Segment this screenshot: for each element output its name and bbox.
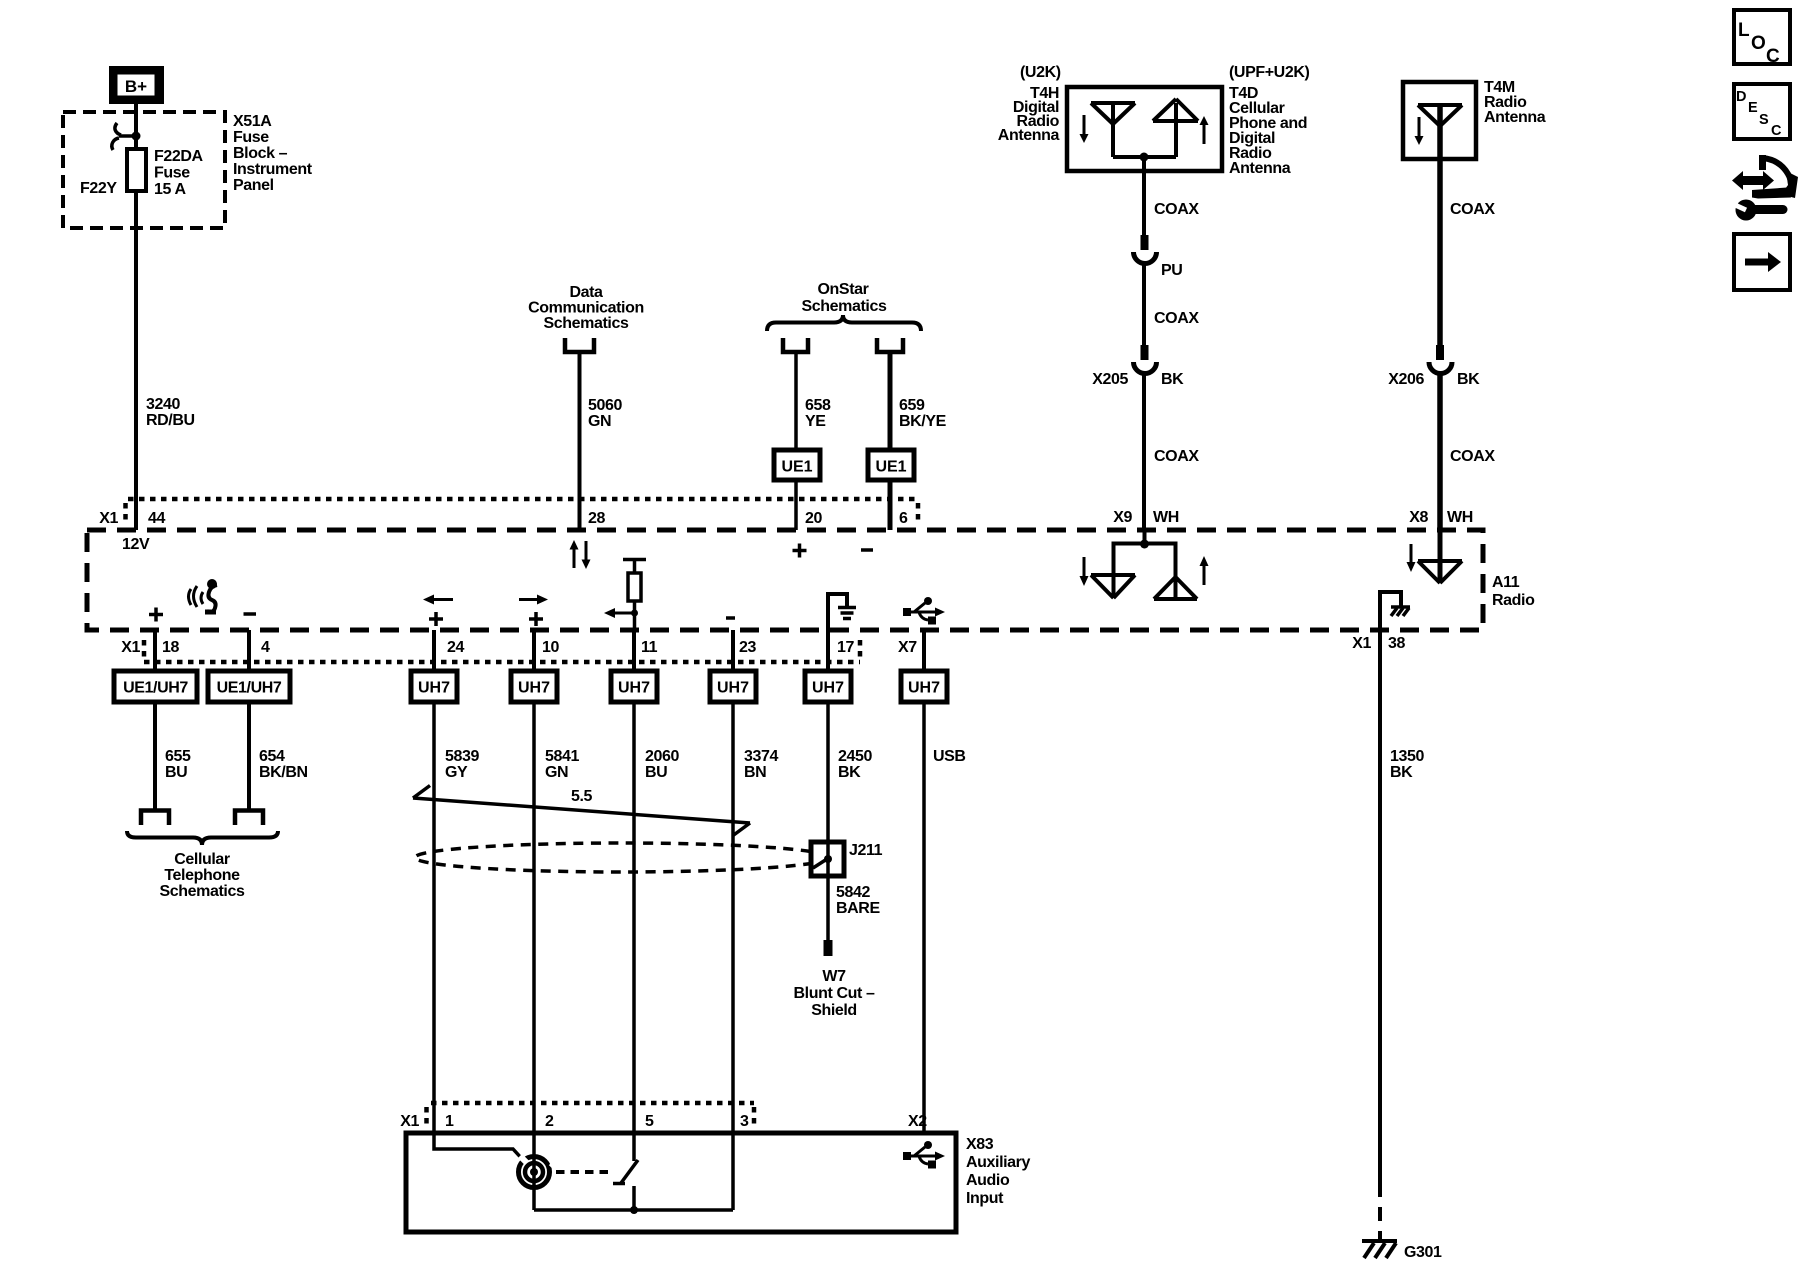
minus sign pin 4 xyxy=(244,612,257,616)
svg-text:Blunt Cut –: Blunt Cut – xyxy=(794,985,875,1002)
label T4M Radio Antenna xyxy=(1484,79,1546,126)
wire dashed to G301 xyxy=(1378,1183,1382,1240)
svg-text:23: 23 xyxy=(739,639,756,656)
radio antenna T4M symbol xyxy=(1418,105,1462,159)
cellular antenna T4D symbol xyxy=(1144,99,1198,157)
svg-text:BK: BK xyxy=(1390,764,1413,781)
transmit antenna in radio (X9) xyxy=(1154,544,1197,600)
svg-text:BARE: BARE xyxy=(836,900,880,917)
svg-text:W7: W7 xyxy=(822,968,846,985)
svg-text:Schematics: Schematics xyxy=(544,315,629,332)
svg-text:COAX: COAX xyxy=(1154,310,1199,327)
svg-text:Block –: Block – xyxy=(233,145,288,162)
connector UH7 (pin 24) xyxy=(411,671,457,702)
USB icon pin X7 xyxy=(903,597,945,625)
svg-text:20: 20 xyxy=(805,510,822,527)
plus sign pin 18 xyxy=(149,608,163,622)
off-page connector data communication xyxy=(565,338,594,352)
wire 658 YE xyxy=(794,354,798,450)
svg-text:X2: X2 xyxy=(908,1113,927,1130)
svg-text:Instrument: Instrument xyxy=(233,161,313,178)
svg-text:X1: X1 xyxy=(400,1113,419,1130)
icon DESC box xyxy=(1734,84,1790,139)
left arrow pin 11 xyxy=(604,608,633,618)
splice J211 xyxy=(811,842,844,876)
svg-text:3240: 3240 xyxy=(146,396,180,413)
wire pin 4 stub xyxy=(247,630,251,671)
svg-text:UE1/UH7: UE1/UH7 xyxy=(123,680,188,697)
label 5841 GN xyxy=(545,748,579,781)
wire 654 BK/BN xyxy=(247,702,251,810)
connector UE1 (658) xyxy=(774,450,820,480)
svg-text:UH7: UH7 xyxy=(518,680,550,697)
svg-text:18: 18 xyxy=(162,639,179,656)
svg-text:PU: PU xyxy=(1161,262,1182,279)
dashed link jack to switch xyxy=(556,1170,614,1174)
svg-text:Input: Input xyxy=(966,1190,1004,1207)
svg-text:BK: BK xyxy=(838,764,861,781)
connector UH7 (pin 23) xyxy=(710,671,756,702)
svg-text:Auxiliary: Auxiliary xyxy=(966,1154,1030,1171)
shield dashed ellipse xyxy=(415,843,829,872)
svg-text:44: 44 xyxy=(148,510,165,527)
off-page connector OnStar 659 xyxy=(877,338,903,352)
svg-text:38: 38 xyxy=(1388,635,1405,652)
svg-text:5841: 5841 xyxy=(545,748,579,765)
svg-text:A11: A11 xyxy=(1492,574,1520,591)
label 655 BU xyxy=(165,748,191,781)
wire pin 1 to jack xyxy=(434,1133,524,1161)
down arrow (X9 receive) xyxy=(1080,557,1089,586)
svg-text:BK: BK xyxy=(1457,371,1480,388)
svg-text:2060: 2060 xyxy=(645,748,679,765)
blunt cut W7 xyxy=(824,940,833,956)
label 658 YE xyxy=(805,397,831,430)
wire pin X7 stub xyxy=(922,630,926,671)
svg-text:X51A: X51A xyxy=(233,113,272,130)
svg-text:(UPF+U2K): (UPF+U2K) xyxy=(1229,64,1309,81)
svg-text:Panel: Panel xyxy=(233,177,274,194)
wire 659 BK/YE to pin 6 xyxy=(888,480,893,530)
svg-text:Communication: Communication xyxy=(528,300,644,317)
svg-text:5839: 5839 xyxy=(445,748,479,765)
svg-text:UH7: UH7 xyxy=(908,680,940,697)
svg-text:X8: X8 xyxy=(1409,509,1428,526)
svg-text:UH7: UH7 xyxy=(812,680,844,697)
svg-text:5842: 5842 xyxy=(836,884,870,901)
label 5842 BARE xyxy=(836,884,880,917)
svg-text:F22Y: F22Y xyxy=(80,180,117,197)
up arrow T4D xyxy=(1200,116,1209,144)
svg-text:3: 3 xyxy=(740,1113,749,1130)
svg-text:X205: X205 xyxy=(1092,371,1128,388)
wire rail in X83 xyxy=(534,1208,733,1212)
icon connector tool xyxy=(1732,155,1798,221)
svg-text:5060: 5060 xyxy=(588,397,622,414)
wire 3374 BN xyxy=(731,702,735,1133)
svg-text:E: E xyxy=(1748,100,1758,116)
down arrow T4H xyxy=(1080,115,1089,143)
svg-text:(U2K): (U2K) xyxy=(1020,64,1061,81)
svg-text:UE1/UH7: UE1/UH7 xyxy=(217,680,282,697)
svg-text:RD/BU: RD/BU xyxy=(146,412,195,429)
svg-text:COAX: COAX xyxy=(1154,448,1199,465)
svg-text:Data: Data xyxy=(569,284,603,301)
svg-text:Telephone: Telephone xyxy=(164,867,240,884)
left arrow pin 24 xyxy=(423,595,453,605)
svg-text:Radio: Radio xyxy=(1492,592,1535,609)
svg-text:15 A: 15 A xyxy=(154,181,186,198)
svg-text:GY: GY xyxy=(445,764,468,781)
right arrow pin 10 xyxy=(519,595,548,605)
svg-text:UE1: UE1 xyxy=(781,459,812,476)
svg-text:Schematics: Schematics xyxy=(160,883,245,900)
svg-text:UH7: UH7 xyxy=(717,680,749,697)
label A11 Radio xyxy=(1492,574,1535,609)
wire 655 BU xyxy=(153,702,157,810)
plus sign pin 24 xyxy=(429,612,443,626)
svg-text:BU: BU xyxy=(165,764,187,781)
svg-text:Shield: Shield xyxy=(811,1002,857,1019)
svg-text:Schematics: Schematics xyxy=(802,298,887,315)
label T4H Digital Radio Antenna xyxy=(998,85,1060,144)
svg-text:GN: GN xyxy=(588,413,611,430)
label OnStar Schematics xyxy=(802,281,887,315)
svg-text:2: 2 xyxy=(545,1113,554,1130)
svg-text:1: 1 xyxy=(445,1113,454,1130)
svg-text:654: 654 xyxy=(259,748,285,765)
off-page connector OnStar 658 xyxy=(783,338,808,352)
connector X1 top row dotted line xyxy=(126,499,919,525)
wire USB X7 to X2 xyxy=(922,702,926,1133)
svg-text:S: S xyxy=(1759,112,1769,128)
svg-text:Fuse: Fuse xyxy=(154,165,190,182)
inline connector X205 xyxy=(1134,345,1157,374)
svg-text:Cellular: Cellular xyxy=(174,851,230,868)
wire coax X206 to radio X8 xyxy=(1437,374,1443,531)
wire 3240 RD/BU label xyxy=(146,396,195,429)
ground G301 xyxy=(1362,1241,1397,1258)
wire pin 18 stub xyxy=(153,630,157,671)
svg-text:OnStar: OnStar xyxy=(818,281,869,298)
bus tap junction xyxy=(112,123,141,150)
down arrow (X8 receive) xyxy=(1407,544,1416,572)
resistor antenna pin 11 xyxy=(623,560,646,631)
fuse block X51A dashed box xyxy=(63,112,225,228)
connector UE1 (659) xyxy=(868,450,914,480)
minus sign pin 23 xyxy=(726,616,735,620)
connector X1 bottom row dotted line xyxy=(144,640,860,662)
wire 5839 GY xyxy=(432,702,436,1133)
svg-text:X9: X9 xyxy=(1113,509,1132,526)
label Cellular Telephone Schematics xyxy=(160,851,245,900)
svg-text:BK: BK xyxy=(1161,371,1184,388)
connector UH7 (pin X7) xyxy=(901,671,947,702)
label 1350 BK xyxy=(1390,748,1424,781)
svg-text:X83: X83 xyxy=(966,1136,994,1153)
svg-text:O: O xyxy=(1751,33,1766,54)
wire pin 3 to rail xyxy=(731,1133,735,1210)
label 2060 BU xyxy=(645,748,679,781)
svg-text:Audio: Audio xyxy=(966,1172,1010,1189)
svg-text:UH7: UH7 xyxy=(618,680,650,697)
svg-text:655: 655 xyxy=(165,748,191,765)
off-page connector cellular (654) xyxy=(235,811,263,826)
brace OnStar xyxy=(767,315,921,331)
down arrow T4M xyxy=(1415,117,1424,145)
inline connector X206 xyxy=(1429,345,1452,374)
receive antenna in radio (X9) xyxy=(1091,544,1135,599)
A11 radio dashed box xyxy=(87,530,1483,630)
svg-text:5: 5 xyxy=(645,1113,654,1130)
node antenna junction xyxy=(1140,153,1149,162)
svg-text:C: C xyxy=(1766,46,1780,67)
wire pin 2 through jack to rail xyxy=(532,1133,536,1210)
wire 5060 GN xyxy=(578,354,582,530)
svg-text:Antenna: Antenna xyxy=(1229,160,1291,177)
svg-text:COAX: COAX xyxy=(1154,201,1199,218)
plus sign pin 10 xyxy=(529,612,543,626)
up/down arrows pin 28 xyxy=(570,540,591,569)
svg-text:D: D xyxy=(1736,89,1746,105)
svg-text:YE: YE xyxy=(805,413,826,430)
svg-text:B+: B+ xyxy=(125,77,147,96)
node X9 junction in radio xyxy=(1112,530,1178,549)
connector UH7 (pin 10) xyxy=(511,671,557,702)
svg-text:4: 4 xyxy=(261,639,270,656)
connector UH7 (pin 17) xyxy=(805,671,851,702)
label 654 BK/BN xyxy=(259,748,308,781)
wire pin 17 stub xyxy=(826,630,830,671)
label X51A Fuse Block Instrument Panel xyxy=(233,113,313,194)
svg-text:11: 11 xyxy=(641,639,658,656)
wire coax T4M down xyxy=(1437,159,1443,346)
audio jack xyxy=(519,1156,556,1188)
wire 5841 GN xyxy=(532,702,536,1133)
receive antenna in radio (X8) xyxy=(1418,530,1462,583)
svg-text:X1: X1 xyxy=(1352,635,1371,652)
label W7 Blunt Cut Shield xyxy=(794,968,875,1019)
plus sign pin 20 xyxy=(793,544,807,558)
svg-text:658: 658 xyxy=(805,397,831,414)
connector X83 X1 dotted line xyxy=(427,1103,755,1129)
ground symbol pin 17 xyxy=(828,594,856,630)
microphone icon in radio xyxy=(189,579,218,612)
svg-text:WH: WH xyxy=(1153,509,1179,526)
X83 auxiliary audio input box xyxy=(406,1133,956,1232)
svg-text:17: 17 xyxy=(837,639,854,656)
svg-text:BK/BN: BK/BN xyxy=(259,764,308,781)
label 2450 BK xyxy=(838,748,872,781)
connector UE1/UH7 (pin 4) xyxy=(208,671,290,702)
svg-text:Antenna: Antenna xyxy=(998,127,1060,144)
svg-text:GN: GN xyxy=(545,764,568,781)
svg-text:USB: USB xyxy=(933,748,966,765)
svg-text:BU: BU xyxy=(645,764,667,781)
svg-text:X1: X1 xyxy=(99,510,118,527)
wire 658 YE to pin 20 xyxy=(794,480,798,530)
switch blade xyxy=(613,1160,638,1214)
wire pin 11 stub xyxy=(632,630,636,671)
wire coax X205 to radio X9 xyxy=(1142,374,1146,531)
wire 2060 BU xyxy=(632,702,636,1133)
label 5060 GN xyxy=(588,397,622,430)
wire B+ feed to fuse xyxy=(134,104,138,530)
svg-text:X206: X206 xyxy=(1388,371,1424,388)
svg-text:X7: X7 xyxy=(898,639,917,656)
icon forward arrow box xyxy=(1734,234,1790,290)
svg-text:WH: WH xyxy=(1447,509,1473,526)
svg-text:Fuse: Fuse xyxy=(233,129,269,146)
icon LOC box xyxy=(1734,10,1790,67)
label F22DA Fuse 15 A xyxy=(154,148,204,198)
connector UH7 (pin 11) xyxy=(611,671,657,702)
svg-text:COAX: COAX xyxy=(1450,448,1495,465)
svg-text:12V: 12V xyxy=(122,536,150,553)
wire pin 24 stub xyxy=(432,630,436,671)
svg-text:G301: G301 xyxy=(1404,1244,1442,1261)
svg-text:6: 6 xyxy=(899,510,908,527)
svg-text:UE1: UE1 xyxy=(875,459,906,476)
USB icon in X83 xyxy=(903,1141,945,1169)
digital radio antenna T4H symbol xyxy=(1091,103,1144,157)
svg-text:28: 28 xyxy=(588,510,605,527)
wire coax PU to X205 xyxy=(1142,264,1146,347)
svg-text:F22DA: F22DA xyxy=(154,148,204,165)
wire 659 BK/YE xyxy=(888,354,893,450)
svg-text:2450: 2450 xyxy=(838,748,872,765)
svg-text:BN: BN xyxy=(744,764,766,781)
label Data Communication Schematics xyxy=(528,284,644,332)
label 3374 BN xyxy=(744,748,778,781)
up arrow (X9 transmit) xyxy=(1200,556,1209,585)
minus sign pin 6 xyxy=(861,548,873,552)
label 5839 GY xyxy=(445,748,479,781)
label X83 Auxiliary Audio Input xyxy=(966,1136,1030,1207)
svg-text:10: 10 xyxy=(542,639,559,656)
twisted pair annotation arrow 5.5 xyxy=(413,786,750,836)
wire pin 10 stub xyxy=(532,630,536,671)
svg-text:BK/YE: BK/YE xyxy=(899,413,947,430)
svg-text:1350: 1350 xyxy=(1390,748,1424,765)
svg-text:5.5: 5.5 xyxy=(571,788,593,805)
svg-text:X1: X1 xyxy=(121,639,140,656)
power B+ xyxy=(109,66,164,104)
ground symbol pin 38 in radio xyxy=(1380,592,1410,630)
svg-text:Antenna: Antenna xyxy=(1484,109,1546,126)
svg-text:J211: J211 xyxy=(849,842,883,859)
svg-text:659: 659 xyxy=(899,397,925,414)
brace cellular telephone xyxy=(127,831,278,845)
svg-text:L: L xyxy=(1738,20,1750,41)
radio antenna T4M box xyxy=(1403,82,1476,159)
svg-text:COAX: COAX xyxy=(1450,201,1495,218)
antenna module T4H/T4D box xyxy=(1067,87,1222,171)
wire coax T4H/T4D down xyxy=(1142,157,1146,236)
wire 1350 BK xyxy=(1378,630,1382,1183)
svg-text:3374: 3374 xyxy=(744,748,778,765)
wire 2450 BK xyxy=(826,702,830,842)
svg-text:UH7: UH7 xyxy=(418,680,450,697)
connector UE1/UH7 (pin 18) xyxy=(114,671,197,702)
label 659 BK/YE xyxy=(899,397,947,430)
wire pin 23 stub xyxy=(731,630,735,671)
label T4D Cellular Phone and Digital Radio Antenna xyxy=(1229,85,1307,177)
inline connector PU xyxy=(1134,235,1157,264)
wire pin 5 to switch xyxy=(632,1133,636,1161)
svg-text:24: 24 xyxy=(447,639,464,656)
off-page connector cellular (655) xyxy=(141,811,169,826)
svg-text:C: C xyxy=(1771,123,1782,139)
wire 5842 BARE xyxy=(826,876,830,940)
fuse F22DA 15A xyxy=(127,149,146,191)
